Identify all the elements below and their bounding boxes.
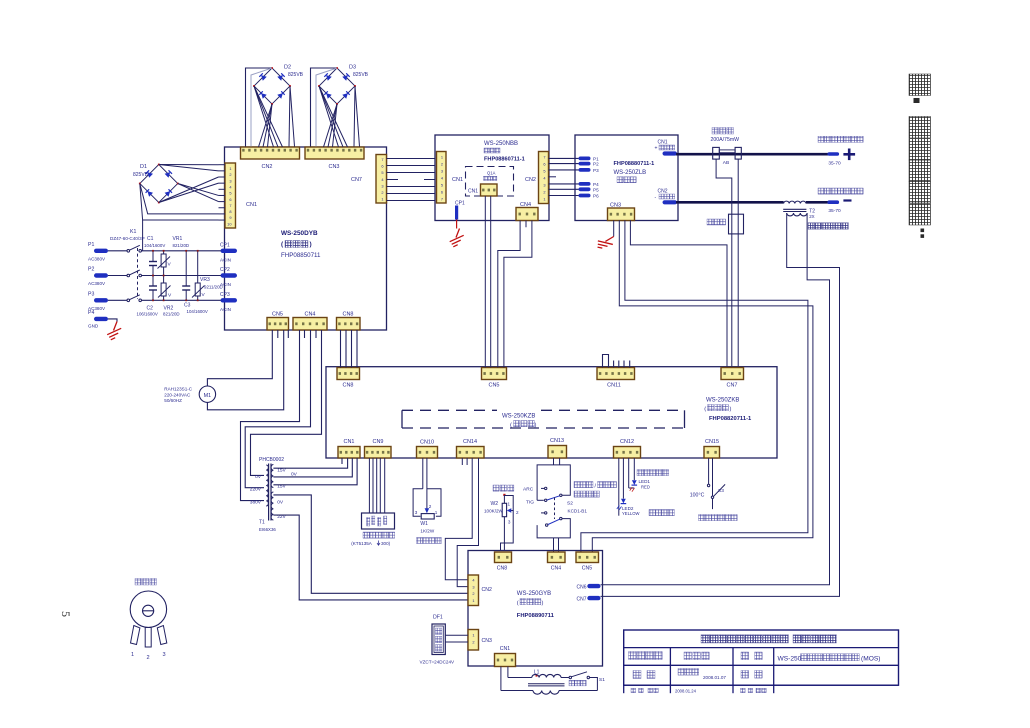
svg-text:CN5: CN5 (582, 566, 592, 572)
wire M1 bottom to power CN5 pin3 (207, 330, 283, 410)
wire rectifier CN3 pin2 to HV CN5 (long loop right outer) (592, 220, 813, 552)
wire W2 tie to HV CN8 (501, 511, 514, 551)
wire D3 left corner diagonals (319, 86, 339, 147)
svg-text:7: 7 (229, 203, 231, 208)
label 分流器 200A/75mW (712, 128, 719, 135)
wire control CN12 pin3 (628, 458, 630, 488)
connector CN2 (inverter right, pins 7-1) (539, 152, 549, 204)
title block row: 设 计 | 李敏科 2008.01.07 | 图 号 (633, 671, 641, 679)
transformer T1 core (268, 464, 270, 521)
wire P3 to breaker (108, 299, 127, 301)
svg-text:6: 6 (229, 197, 231, 202)
page number 5 (rotated) (59, 611, 73, 617)
svg-text:2: 2 (381, 190, 383, 195)
dashed control daughter board WS-250KZB strip (402, 409, 497, 411)
ground at inverter CP1 (red) (456, 220, 458, 229)
svg-text:CP2: CP2 (220, 267, 230, 273)
label 负输出快速接头 (818, 188, 824, 194)
svg-text:CN9: CN9 (372, 439, 383, 445)
wire phase rail 2 (142, 275, 227, 277)
stubs power CN4 pins (304, 330, 306, 338)
stubs power CN5 pins 2,4 (277, 330, 279, 338)
svg-text:W2: W2 (491, 501, 499, 507)
connector CN1 (inverter left, pins 1-7) (437, 152, 447, 204)
svg-text:WS-250KZB: WS-250KZB (502, 414, 535, 420)
terminals P1-P6 (rectifier inputs) (579, 157, 591, 161)
title block table (624, 630, 899, 685)
svg-text:W1: W1 (420, 521, 428, 527)
svg-text:FHP08850711: FHP08850711 (281, 252, 321, 259)
svg-text:220V: 220V (250, 487, 262, 493)
connector CN7 (power board right, pins 7-1) (376, 155, 387, 204)
svg-text:50/60HZ: 50/60HZ (164, 398, 182, 403)
svg-text:3: 3 (472, 584, 474, 589)
svg-text:CN12: CN12 (620, 439, 634, 445)
connector CN8 (power board bottom) (337, 318, 361, 331)
connector CN8 (HV top) (495, 552, 512, 563)
wires T1 secondary to control CN1 (273, 458, 347, 468)
wire D2 top corner to connector pin (outer left) (246, 68, 273, 147)
svg-text:CN3: CN3 (482, 638, 492, 644)
capacitor C2 (152, 276, 154, 287)
wires DF1 to HV CN3 (445, 634, 468, 636)
wires inverter CN2 to rectifier P1-P6 (549, 157, 579, 159)
svg-text:P3: P3 (593, 168, 599, 173)
svg-text:100: 100 (690, 493, 699, 499)
switch S2 bottom bracket (537, 519, 570, 538)
connector CN4 (inverter bottom) (516, 208, 538, 221)
svg-text:15V: 15V (277, 483, 286, 489)
svg-text:RED: RED (641, 485, 650, 490)
svg-text:6: 6 (441, 190, 443, 195)
connector CN9 (control bottom) (365, 447, 392, 459)
connector CN7 (control top) (721, 368, 744, 380)
svg-text:1: 1 (381, 197, 383, 202)
title block header 广州市烽火实业有限公司 焊接设备厂 (701, 635, 709, 643)
wires power CN7 to inverter CN1 (7) (387, 158, 436, 160)
potentiometer W2 100K/2W (503, 494, 505, 496)
svg-text:3: 3 (415, 510, 418, 515)
terminal CP1 ACIN (power board) (221, 249, 238, 253)
terminal CP3 ACIN (221, 298, 238, 302)
capacitor C3 (185, 251, 187, 286)
switch S2 top bracket (537, 465, 570, 500)
svg-text:VR1: VR1 (173, 236, 183, 242)
terminal CP2 ACIN (221, 273, 238, 277)
stubs above CN11 (613, 361, 615, 368)
svg-text:P4: P4 (88, 310, 94, 316)
switch S2 pole2 contacts (541, 512, 544, 514)
connector CN3 (HV left, pins 1-2) (468, 630, 479, 651)
svg-text:CN7: CN7 (726, 383, 737, 389)
svg-text:CN14: CN14 (463, 439, 477, 445)
svg-text:200A/75mW: 200A/75mW (711, 137, 740, 143)
connector CN1 (control bottom) (338, 447, 360, 459)
wires control CN9 to ammeter (368, 458, 370, 513)
svg-text:2008.01.24: 2008.01.24 (675, 689, 697, 694)
svg-text:380V: 380V (250, 499, 262, 505)
svg-text:2: 2 (229, 172, 231, 177)
svg-text:M1: M1 (204, 393, 212, 399)
label 故障指示灯 (637, 470, 643, 476)
svg-text:ACIN: ACIN (220, 307, 231, 312)
svg-text:1K/2W: 1K/2W (420, 529, 434, 534)
connector CN5 (control top) (482, 368, 507, 380)
HF coupling transformer T2 (784, 201, 806, 203)
svg-text:7: 7 (381, 157, 383, 162)
label 正输出快速接头 (818, 136, 824, 142)
connector CN8 (control top) (337, 368, 360, 380)
svg-text:GND: GND (88, 324, 99, 329)
terminal P3 AC380V (94, 298, 108, 302)
svg-text:P3: P3 (88, 291, 94, 297)
svg-text:106/1600V: 106/1600V (137, 312, 158, 317)
varistor VR1 (163, 251, 165, 254)
svg-text:6: 6 (543, 162, 545, 167)
switch S2 mechanical dashed link (554, 498, 556, 520)
svg-text:CN8: CN8 (497, 566, 507, 572)
svg-text:CN2: CN2 (658, 189, 668, 195)
ground at rectifier CN3 (red, tilted) (595, 230, 617, 253)
positive output heavy wire (676, 153, 828, 156)
potentiometer 电位器 (135, 579, 142, 586)
digital ammeter box (362, 513, 395, 529)
svg-text:825VB: 825VB (133, 172, 149, 178)
svg-text:8: 8 (229, 209, 231, 214)
svg-text:2X: 2X (809, 214, 814, 219)
rectifier board WS-250ZLB outline (575, 135, 678, 221)
wire phase rail 1 (142, 250, 227, 252)
torch trigger switch S1 (569, 676, 571, 678)
labels 手工焊/氩弧焊 转换开关 S2 KCD1-B1 (574, 482, 580, 488)
breaker K1 pole 2 (127, 274, 130, 277)
svg-text:C3: C3 (184, 303, 191, 309)
connector CN13 (control bottom) (548, 446, 567, 459)
svg-text:DF1: DF1 (433, 615, 443, 621)
svg-text:821/20D: 821/20D (163, 312, 180, 317)
svg-text:2: 2 (429, 504, 432, 509)
svg-text:P1: P1 (88, 242, 94, 248)
stub inverter CN2 pin4 (549, 176, 557, 178)
svg-text:CN11: CN11 (607, 383, 621, 389)
svg-text:CN13: CN13 (550, 438, 564, 444)
connector CN14 (control bottom) (457, 447, 485, 459)
arrowhead W1 wiper (425, 508, 430, 513)
wire rectifier CN3 pin4 right-down to control CN7 (630, 220, 727, 367)
svg-text:AC380V: AC380V (88, 256, 106, 261)
fuse/filter box on sense wires (729, 214, 744, 234)
svg-text:3: 3 (163, 652, 166, 658)
connector CN1 (HV bottom) (495, 654, 516, 667)
connector CN3 (power board top) (305, 147, 364, 159)
connector CN1 (power board left, pins 1-10) (225, 163, 236, 228)
caption 六. 整机接线图: (vertical) (909, 74, 931, 238)
svg-text:CN1: CN1 (468, 189, 478, 195)
svg-text:+: + (655, 146, 658, 152)
resistor W1 body (421, 514, 434, 519)
resistor W1 bracket (413, 489, 423, 517)
svg-text:CN1: CN1 (452, 177, 463, 183)
remote pendant DF1 box (432, 624, 445, 655)
label 枪开关 (569, 680, 575, 686)
svg-text:): ) (542, 601, 544, 607)
svg-text:CN6: CN6 (576, 584, 586, 590)
svg-text:LED1: LED1 (639, 479, 651, 484)
svg-text:RAH123S1-C: RAH123S1-C (164, 387, 193, 392)
svg-text:EI66X36: EI66X36 (259, 527, 276, 532)
main control board WS-250ZKB outline (326, 367, 777, 458)
svg-text:1: 1 (131, 652, 134, 658)
shunt AB 200A/75mV (713, 147, 720, 159)
svg-text:(: ( (510, 423, 512, 429)
svg-text:3: 3 (508, 520, 511, 525)
svg-text:CN1: CN1 (246, 202, 257, 208)
capacitor C1 (152, 251, 154, 262)
wires control CN15 to thermal switch S3 (708, 458, 710, 484)
svg-text:(KT5135A: (KT5135A (351, 541, 373, 546)
ground symbol at P4 (red) (107, 322, 121, 340)
wire inverter CN4 pin3 to control CN5 (504, 221, 532, 368)
svg-text:2008.01.07: 2008.01.07 (703, 675, 726, 680)
wire P2 to breaker (108, 275, 127, 277)
LED2 YELLOW (621, 499, 626, 504)
svg-text:2: 2 (516, 510, 519, 515)
terminal P1 AC380V (94, 249, 108, 253)
switch S2 pole1 contacts (541, 487, 544, 489)
svg-text:5: 5 (59, 611, 73, 617)
wire T1 22V secondary to HV CN2 pin1 (273, 515, 468, 600)
wires power CN8 straight down to control CN8 (340, 330, 342, 368)
svg-text:2: 2 (147, 655, 150, 661)
svg-text:6: 6 (381, 164, 383, 169)
potentiometer legs 1 2 3 (131, 626, 140, 645)
wire D3 top corner to connector pin (outer left) (311, 68, 338, 147)
connector CN5 (power board bottom) (267, 318, 289, 331)
svg-text:5: 5 (543, 169, 545, 174)
svg-text:100K/2W: 100K/2W (484, 509, 504, 514)
wires T2 secondary to HV board CN6/CN7 (601, 213, 840, 596)
inverter board WS-250NBB outline (435, 135, 549, 221)
svg-text:P5: P5 (593, 187, 599, 192)
svg-text:1: 1 (508, 502, 511, 507)
svg-text:1: 1 (543, 197, 545, 202)
stubs control CN14 pins 1,2 (461, 458, 463, 465)
wires D1 to CN1 pins (219, 164, 226, 166)
wires CN6/CN7 to T2 loop (drawn above) (600, 585, 602, 586)
connector CN4 (power board bottom) (293, 318, 327, 331)
terminal negative quick connector 35-70 (827, 200, 839, 204)
svg-text:(MOS): (MOS) (861, 656, 880, 663)
svg-text:821/20D: 821/20D (173, 243, 190, 248)
wire D3 right corner leads (354, 86, 355, 147)
svg-text:CN8: CN8 (342, 383, 353, 389)
svg-text:AC380V: AC380V (88, 281, 106, 286)
stub inverter CN4 pin2 (525, 221, 527, 228)
wire P4 to ground (108, 319, 117, 322)
svg-text:825VB: 825VB (288, 72, 304, 78)
minus sign (843, 199, 851, 201)
svg-text:1: 1 (472, 598, 474, 603)
svg-text:): ) (730, 407, 732, 413)
svg-text:CN2: CN2 (261, 164, 272, 170)
wire D3 top corner to connector pin (gray) (316, 68, 337, 147)
svg-text:S1: S1 (599, 677, 605, 683)
connector CN5 (HV top) (576, 552, 599, 563)
connector CN1 (driver board) (481, 184, 498, 196)
terminal P2 AC380V (94, 273, 108, 277)
svg-text:D3: D3 (349, 65, 356, 71)
wire D2 bottom corner diagonals (259, 104, 273, 147)
svg-text:3: 3 (543, 183, 545, 188)
svg-text:CN7: CN7 (351, 177, 362, 183)
motor M1 circle (199, 386, 215, 402)
svg-text:D1: D1 (140, 164, 147, 170)
svg-text:(: ( (704, 407, 706, 413)
svg-text:1: 1 (472, 633, 474, 638)
svg-text:5: 5 (441, 183, 443, 188)
wires control CN14 to HV CN2 pins 4,3 (445, 458, 472, 580)
svg-text:PHCB0002: PHCB0002 (259, 457, 284, 463)
terminal CN1 (rectifier + output) (663, 151, 678, 155)
wire rectifier CN3 pin1 to ground (613, 220, 615, 236)
wire D1 left corner down to pin10 and phase rail (140, 184, 219, 221)
svg-text:VZCT=24DC24V: VZCT=24DC24V (420, 660, 456, 665)
breaker K1 mechanical dashed link (137, 248, 139, 299)
svg-text:2: 2 (543, 190, 545, 195)
svg-text:104/1600V: 104/1600V (144, 243, 165, 248)
svg-text:S3: S3 (718, 488, 724, 494)
breaker K1 pole 1 (127, 250, 130, 253)
wire D3 bottom corner diagonals (324, 104, 338, 147)
svg-text:1: 1 (435, 510, 438, 515)
wire D2 left corner diagonals (254, 86, 274, 147)
svg-text:5: 5 (229, 191, 231, 196)
label 高频耦合线圈 (bold) (808, 223, 814, 229)
svg-text:ACIN: ACIN (220, 258, 231, 263)
svg-text:): ) (535, 423, 537, 429)
svg-text:5: 5 (381, 170, 383, 175)
terminal positive quick connector 35-70 (827, 152, 839, 156)
svg-text:FHP08820711-1: FHP08820711-1 (709, 416, 752, 422)
varistor VR3 (197, 251, 199, 283)
svg-text:ARC: ARC (523, 487, 534, 493)
svg-text:°C: °C (699, 493, 705, 499)
svg-text:CP3: CP3 (220, 292, 230, 298)
label 数字电流表 (KT5135A 300) (363, 532, 369, 538)
svg-text:CN1: CN1 (500, 646, 510, 652)
svg-text:0V: 0V (255, 474, 262, 480)
connector CN15 (control bottom) (704, 447, 720, 459)
LED1 RED (632, 480, 637, 485)
label 遥控器 above W2 (493, 485, 499, 491)
wire control CN12 pin4 to LED1 (633, 458, 635, 480)
svg-text:WS-250DYB: WS-250DYB (281, 230, 318, 237)
bridge rectifier D1 (139, 164, 179, 204)
title block partial bottom row (631, 688, 636, 693)
svg-text:CN4: CN4 (520, 202, 531, 208)
wires power CN4 to transformer T1 primary taps (241, 330, 300, 501)
terminal P4 GND (94, 317, 108, 321)
svg-text:WS-250GYB: WS-250GYB (517, 591, 551, 597)
driver daughterboard Q1A dashed box (466, 167, 514, 197)
bridge rectifier D2 (253, 67, 291, 105)
svg-text:DZ47-60-C40/3P: DZ47-60-C40/3P (110, 236, 145, 241)
svg-text:35-70: 35-70 (828, 161, 841, 167)
wire control CN12 pin2 to LED2 (622, 458, 624, 499)
svg-text:300): 300) (381, 541, 391, 546)
svg-text:P2: P2 (88, 267, 94, 273)
svg-text:7: 7 (543, 155, 545, 160)
svg-text:K1: K1 (130, 229, 136, 235)
transformer T1 secondary winding lower (271, 492, 273, 520)
svg-text:2: 2 (472, 591, 474, 596)
wires control CN10 to W1 (422, 458, 424, 489)
wires driver CN1 down to control CN5 (484, 196, 486, 368)
label 预留指示 (649, 510, 655, 516)
svg-text:AB: AB (723, 160, 729, 166)
wires control CN13 to switch S2 (553, 458, 555, 465)
svg-text:C1: C1 (147, 236, 154, 242)
wire P1 to breaker (108, 250, 127, 252)
svg-text:CN8: CN8 (342, 312, 353, 318)
svg-text:3: 3 (441, 169, 443, 174)
svg-text:1: 1 (229, 166, 231, 171)
negative output heavy wire (676, 201, 784, 204)
svg-text:P6: P6 (593, 194, 599, 199)
high voltage board WS-250GYB outline (468, 551, 603, 667)
label 温控器、常开 (699, 515, 705, 521)
svg-text:CN2: CN2 (525, 177, 536, 183)
svg-text:P4: P4 (593, 182, 599, 187)
svg-text:VR3: VR3 (200, 277, 210, 283)
svg-text:CN4: CN4 (304, 312, 315, 318)
svg-text:9: 9 (229, 215, 231, 220)
svg-text:1: 1 (441, 155, 443, 160)
svg-text:): ) (310, 241, 312, 248)
power board WS-250DYB outline (225, 147, 387, 330)
svg-text:D2: D2 (284, 65, 291, 71)
terminal CN2 (rectifier - output) (663, 200, 678, 204)
wires HV CN1 to L1/S1 loop (500, 667, 502, 691)
svg-text:TIG: TIG (526, 500, 534, 506)
svg-text:S2: S2 (567, 501, 573, 507)
svg-text:WS-250NBB: WS-250NBB (484, 141, 518, 147)
svg-text:104/1600V: 104/1600V (187, 309, 208, 314)
transformer T1 secondary winding upper (271, 465, 273, 488)
svg-text:CN7: CN7 (576, 596, 586, 602)
stub control CN1 pin1 (341, 458, 343, 464)
svg-text:3: 3 (381, 183, 383, 188)
svg-text:CN2: CN2 (482, 587, 492, 593)
svg-text:CN5: CN5 (272, 312, 283, 318)
svg-text:0V: 0V (277, 500, 284, 506)
junction dots on phase rails (152, 250, 154, 252)
varistor VR2 (163, 276, 165, 284)
svg-text:FHP08860711-1: FHP08860711-1 (484, 157, 525, 163)
wire D2 top corner to connector pin (gray) (251, 68, 272, 147)
svg-text:CN10: CN10 (420, 440, 434, 446)
breaker K1 pole 3 (127, 299, 130, 302)
svg-text:CN5: CN5 (488, 383, 499, 389)
svg-text:KCD1-B1: KCD1-B1 (568, 509, 588, 514)
shunt sense wires down to fuse box and CN7 (716, 159, 732, 367)
connector CN3 (rectifier bottom) (608, 208, 635, 221)
svg-text:CN1: CN1 (658, 140, 668, 146)
wire D2 right corner leads (289, 86, 290, 147)
wire phase rail 3 (142, 299, 227, 301)
svg-text:CN3: CN3 (610, 203, 621, 209)
svg-text:YELLOW: YELLOW (622, 511, 640, 516)
